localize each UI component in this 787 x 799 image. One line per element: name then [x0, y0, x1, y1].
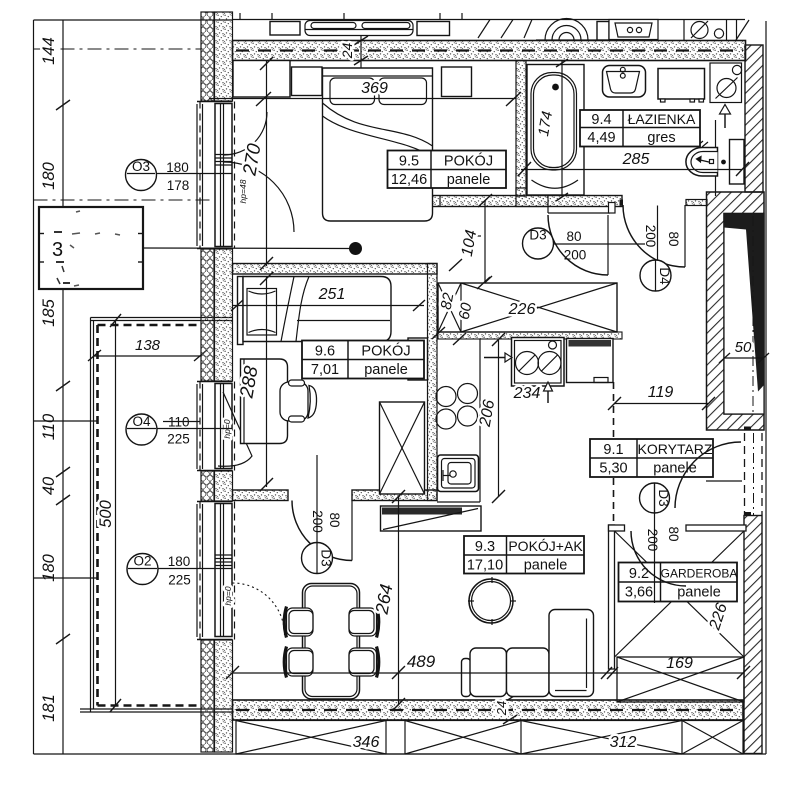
svg-text:80: 80 [666, 526, 681, 541]
svg-text:7,01: 7,01 [311, 362, 339, 378]
dimension 489 / 169 [226, 652, 750, 679]
room 9.5 nightstand right [442, 67, 472, 97]
dimension 369 (room 9.5) [209, 80, 521, 106]
balcony door swing (dotted) [233, 583, 285, 635]
svg-text:346: 346 [353, 734, 380, 751]
svg-text:panele: panele [677, 585, 721, 601]
svg-text:200: 200 [643, 225, 658, 248]
svg-text:panele: panele [524, 558, 568, 574]
svg-text:panele: panele [447, 172, 491, 188]
right wall door opening (dashed) [744, 427, 762, 516]
svg-text:225: 225 [167, 432, 190, 447]
toilet [686, 120, 744, 196]
marker O2 [127, 554, 233, 588]
neighbour hood arcs [536, 18, 597, 40]
svg-text:312: 312 [610, 734, 637, 751]
dash-dot property lines top-left [34, 49, 234, 200]
svg-text:9.1: 9.1 [603, 442, 623, 458]
svg-text:17,10: 17,10 [467, 558, 503, 574]
room 9.6 office chair [280, 380, 317, 422]
svg-text:180: 180 [40, 161, 58, 189]
svg-text:110: 110 [40, 413, 58, 440]
svg-text:O4: O4 [132, 414, 151, 429]
dryer symbol in niche [710, 63, 742, 103]
marker D3 (corridor door) [640, 483, 682, 551]
svg-text:226: 226 [508, 301, 536, 318]
dining table [303, 584, 360, 700]
svg-text:80: 80 [566, 229, 581, 244]
dining chairs [284, 607, 379, 678]
corridor threshold line [706, 480, 742, 482]
neighbour door slashes [478, 20, 532, 39]
svg-text:D3: D3 [529, 228, 546, 243]
svg-text:D4: D4 [657, 267, 672, 285]
shaft dark wedge [724, 214, 764, 392]
svg-text:POKÓJ: POKÓJ [361, 343, 410, 360]
cooktop [436, 384, 478, 430]
kitchen back band [438, 332, 622, 339]
room 9.6 south wall segments [233, 490, 438, 501]
svg-text:225: 225 [168, 573, 191, 588]
marker O3 [126, 159, 233, 193]
marker D4 (entrance door) [640, 206, 681, 292]
left chain boundary lines [34, 420, 97, 422]
kitchen left counter run [437, 339, 480, 502]
svg-text:24: 24 [339, 43, 355, 60]
bottom exterior wall [233, 700, 744, 720]
marker D3 (bathroom door) [523, 228, 646, 263]
room 9.6 single bed [238, 277, 392, 345]
neighbour bench [305, 21, 413, 36]
bathtub [527, 59, 584, 201]
svg-text:9.3: 9.3 [475, 539, 495, 555]
svg-text:12,46: 12,46 [391, 172, 427, 188]
garderoba big X [615, 531, 745, 657]
svg-text:hp=48: hp=48 [238, 179, 248, 203]
svg-text:285: 285 [622, 151, 650, 168]
svg-text:POKÓJ+AK: POKÓJ+AK [508, 538, 583, 554]
counter dimension ticks [432, 259, 490, 345]
svg-text:369: 369 [361, 80, 388, 97]
svg-text:O3: O3 [132, 159, 150, 174]
label box corridor 9.1 [590, 439, 713, 477]
arrow up 234 [544, 382, 553, 403]
dimension 206 [477, 333, 505, 503]
svg-text:3,66: 3,66 [625, 585, 653, 601]
svg-text:3: 3 [52, 239, 63, 261]
neighbour partition [683, 20, 685, 41]
svg-text:144: 144 [40, 37, 58, 65]
dimension 138 (balcony width) [88, 337, 207, 361]
svg-text:ŁAZIENKA: ŁAZIENKA [628, 111, 696, 127]
dimension 104 (corridor) [459, 194, 492, 289]
neighbour flat counter line above top wall [233, 19, 746, 21]
bathroom south wall [430, 188, 622, 213]
reference line from stamp to point [143, 242, 362, 255]
door D3 (bathroom) swing [548, 215, 608, 275]
bottom wardrobe band [236, 721, 743, 755]
svg-text:200: 200 [645, 529, 660, 552]
dimension 270 (room 9.5 height) [239, 57, 273, 270]
dimension 264 [371, 490, 405, 711]
svg-text:178: 178 [167, 178, 190, 193]
dimension 24 (bottom wall) [494, 694, 517, 724]
vent arrow [720, 105, 731, 129]
kitchen square sink [438, 455, 479, 492]
dimension 24 (top wall thickness) [339, 31, 368, 69]
label box room 9.6 [302, 341, 424, 379]
svg-text:hp=0: hp=0 [223, 586, 233, 605]
neighbour cabinet 2 [417, 22, 450, 36]
room 9.5 nightstand left [292, 67, 323, 96]
svg-text:9.6: 9.6 [315, 344, 335, 360]
svg-text:40: 40 [40, 476, 58, 495]
label box garderoba 9.2 [619, 563, 738, 602]
door D3 (corridor, right wall) swing [675, 442, 741, 508]
svg-text:9.5: 9.5 [399, 154, 419, 170]
svg-text:489: 489 [407, 652, 436, 671]
balcony outer double line [80, 318, 233, 713]
room 9.6 wardrobe with X [380, 402, 425, 494]
svg-text:80: 80 [327, 512, 342, 527]
room 9.5 double bed [323, 68, 433, 221]
neighbour cabinet [270, 22, 300, 36]
door D3 (room 9.6) swing [292, 501, 352, 561]
svg-text:119: 119 [648, 384, 674, 401]
marker D3 corridor dimension line [654, 483, 656, 603]
svg-text:GARDEROBA: GARDEROBA [661, 567, 738, 581]
left exterior wall piers (honeycomb + stipple) [201, 12, 233, 752]
svg-text:138: 138 [135, 337, 161, 354]
room 9.6 shelf [408, 338, 428, 380]
svg-text:200: 200 [564, 248, 587, 263]
svg-text:D3: D3 [656, 489, 671, 506]
label box room 9.5 [388, 151, 507, 189]
left dimension chain texts [40, 37, 58, 722]
right exterior wall lower [744, 516, 762, 754]
corner sofa [462, 610, 594, 697]
kitchen upper counter with X [438, 283, 617, 332]
svg-text:O2: O2 [133, 554, 151, 569]
svg-text:panele: panele [653, 461, 697, 477]
window O3 symbol [197, 102, 294, 249]
svg-text:gres: gres [647, 130, 675, 146]
svg-text:500: 500 [97, 499, 115, 527]
window O4 symbol [197, 382, 252, 471]
svg-text:5,30: 5,30 [599, 461, 627, 477]
svg-text:251: 251 [318, 286, 346, 303]
marker O4 [126, 414, 233, 447]
svg-text:9.4: 9.4 [591, 112, 611, 128]
svg-text:180: 180 [166, 160, 189, 175]
TV console [381, 506, 482, 531]
wall between rooms 9.5 and 9.6 [233, 264, 438, 275]
svg-text:181: 181 [40, 694, 58, 722]
label box living room 9.3 [464, 536, 584, 574]
room 9.5 closet [233, 61, 290, 98]
balcony inner dashed outline [98, 325, 202, 706]
svg-text:50: 50 [735, 339, 752, 356]
room 9.6 desk [241, 359, 288, 444]
washing machine [658, 69, 705, 103]
svg-text:D3: D3 [319, 549, 334, 566]
dimension 285 (bathroom width) [518, 151, 749, 176]
door D4 (entrance) swing [623, 205, 685, 267]
dimension 251 (room 9.6 bed) [231, 286, 425, 311]
svg-text:200: 200 [310, 510, 325, 533]
garderoba top wall [686, 525, 746, 531]
svg-text:185: 185 [40, 298, 58, 326]
dimension 500 (balcony height) [97, 314, 121, 712]
dimension 119 (corridor) [608, 384, 715, 410]
neighbour washer [691, 20, 749, 41]
right exterior wall upper [745, 45, 763, 192]
wall between room 9.5 and bathroom [516, 61, 526, 197]
marker D3 (room 9.6 door) [302, 455, 343, 574]
round table [468, 577, 516, 625]
label box bathroom 9.4 [580, 110, 700, 147]
dimension 288 (room 9.6 height) [236, 272, 273, 491]
fridge [567, 339, 614, 383]
shaft wall block (hatched) [707, 192, 770, 430]
door (garderoba) swing [631, 531, 686, 586]
double-bowl sink unit [512, 338, 565, 387]
svg-text:4,49: 4,49 [587, 130, 615, 146]
window/balcony-door O2 symbol [197, 502, 235, 640]
shaft axis dash-dot [752, 216, 754, 412]
neighbour cabinet 3 [597, 22, 609, 41]
garderoba left wall [609, 525, 625, 669]
stamp box (blurred) [39, 207, 143, 289]
arrow to sink [484, 353, 512, 362]
left dimension chain ticks [56, 100, 70, 644]
top exterior wall [233, 41, 746, 61]
washbasin [603, 66, 646, 98]
svg-text:234: 234 [513, 385, 541, 402]
svg-text:24: 24 [494, 701, 509, 716]
corridor/living open boundary (dashed) [613, 382, 615, 522]
svg-text:panele: panele [364, 362, 408, 378]
corridor top wall + entry jamb [620, 200, 708, 206]
svg-text:180: 180 [168, 554, 191, 569]
svg-text:POKÓJ: POKÓJ [444, 153, 493, 170]
garderoba wardrobe band [617, 657, 744, 702]
svg-text:80: 80 [666, 231, 681, 246]
neighbour sink [609, 20, 658, 40]
wall between room 9.6 and kitchen [428, 264, 438, 501]
dimension 50 (shaft) [724, 357, 764, 359]
